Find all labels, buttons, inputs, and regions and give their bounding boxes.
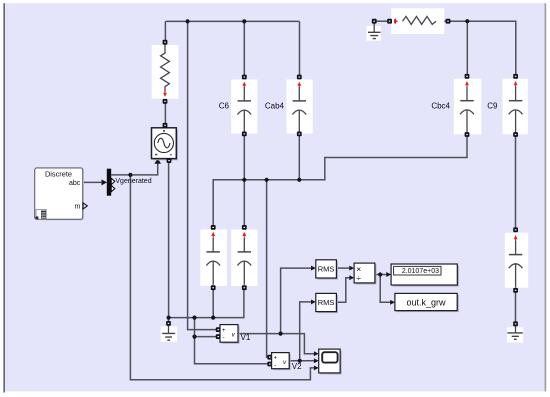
wire V1 output to scope input 1: [239, 334, 315, 354]
wire cap m3 bottom to ground G3: [515, 291, 517, 323]
svg-text:C9: C9: [487, 101, 498, 110]
wire V2 output up to RMS2 input: [300, 302, 312, 361]
junction dot lower bus x194: [192, 316, 196, 320]
wire mux output Vgenerated to source input: [111, 163, 157, 175]
junction dot middle bus to V2: [265, 178, 269, 182]
junction dot lower bus at cap m1: [211, 316, 215, 320]
arrowhead into scope input 1: [314, 351, 319, 356]
arrowhead into scope input 2: [314, 358, 319, 363]
wire Discrete abc to mux: [83, 181, 103, 183]
wire branch to V1 minus input: [195, 336, 217, 338]
junction dot middle bus at Cab4: [297, 178, 301, 182]
powergui block Discrete: [35, 168, 88, 221]
ground G2 top right: [366, 19, 381, 41]
wire lower bus node N: [169, 289, 244, 318]
resistor R1 vertical: [152, 40, 179, 104]
svg-text:V2: V2: [292, 362, 302, 371]
wire RMS2 output to product input 2: [337, 278, 351, 303]
svg-text:RMS: RMS: [318, 265, 335, 274]
canvas right border: [545, 3, 547, 391]
junction dot top bus x188: [186, 19, 190, 23]
capacitor Cab4: [287, 75, 313, 137]
junction dot V2 output: [298, 359, 302, 363]
junction dot V1 output: [279, 332, 283, 336]
wire product output to display input: [375, 274, 386, 276]
arrowhead into display: [386, 272, 391, 277]
RMS block 2: [316, 293, 338, 313]
svg-text:2.0107e+03: 2.0107e+03: [402, 268, 439, 275]
capacitor m2 unlabeled: [231, 225, 257, 290]
svg-text:abc: abc: [69, 180, 81, 187]
wire C9 bottom down to cap m3 top: [515, 136, 517, 228]
arrowhead into mux: [102, 179, 108, 185]
svg-text:Cab4: Cab4: [265, 101, 285, 110]
wire node A down to V1 plus input: [188, 21, 217, 329]
wire C6 bottom to middle bus to cap m2 top: [243, 135, 245, 227]
wire middle bus node B: [213, 136, 467, 227]
wire RMS1 output to product input 1: [337, 267, 351, 269]
resistor R2 horizontal: [387, 8, 450, 34]
svg-text:V1: V1: [241, 333, 251, 342]
mux bus creator: [107, 169, 115, 196]
ground G1 lower left: [161, 321, 177, 342]
wire V2 output to scope input 2: [290, 360, 314, 362]
junction dot middle bus at C6 column: [242, 178, 246, 182]
wire ground G2 to R2 left: [376, 20, 388, 22]
capacitor Cbc4: [454, 74, 482, 137]
arrowhead into source input: [154, 158, 161, 164]
junction dot right bus at Cbc4: [465, 19, 469, 23]
AC controlled voltage source: [152, 123, 179, 163]
wire bus to C6 top: [243, 21, 245, 75]
junction dot lower bus at source minus: [167, 316, 171, 320]
wire R2 right to C9 top: [450, 21, 516, 75]
svg-text:C6: C6: [219, 101, 230, 110]
junction dot Vgenerated: [128, 173, 132, 177]
arrowhead into product input 1: [349, 266, 354, 271]
wire R1 top to bus: [164, 21, 166, 41]
svg-text:÷: ÷: [356, 273, 361, 283]
wire bus to Cab4 top: [299, 21, 301, 75]
svg-text:RMS: RMS: [318, 298, 335, 307]
wire junction down to Cbc4 top: [466, 21, 468, 75]
arrowhead into RMS1: [311, 266, 316, 271]
wire V1 output up to RMS1 input: [281, 268, 312, 334]
capacitor m3 unlabeled right column: [505, 227, 528, 292]
voltage measurement V2: [267, 353, 290, 371]
capacitor m1 unlabeled: [200, 225, 227, 290]
capacitor C6: [231, 75, 257, 137]
svg-text:Discrete: Discrete: [45, 169, 72, 178]
wire product output branch to out block: [380, 275, 390, 303]
junction dot V1 minus branch: [192, 335, 196, 339]
wire middle bus to V2 plus input: [267, 180, 271, 357]
wire R2 left port lead-in: [391, 20, 403, 22]
out block out.k_grw: [395, 293, 459, 312]
RMS block 1: [316, 260, 338, 280]
wire R1 bottom to source V+: [164, 102, 166, 125]
voltage measurement V1: [216, 325, 240, 344]
arrowhead into scope input 3: [314, 365, 319, 370]
svg-text:Vgenerated: Vgenerated: [115, 178, 151, 185]
svg-text:+: +: [274, 355, 278, 361]
scope block: [319, 349, 342, 374]
arrowhead into out block: [390, 300, 395, 305]
junction dot product output: [378, 272, 382, 276]
svg-text:m: m: [74, 204, 80, 211]
product divide block: [354, 263, 376, 284]
display block 2.0107e+03: [391, 264, 459, 287]
wire Vgenerated down along bottom to scope input 3: [130, 175, 314, 380]
wire cap m1 bottom to lower bus: [212, 289, 214, 318]
wire Cab4 bottom to middle bus: [298, 135, 300, 180]
arrowhead into product input 2: [349, 275, 354, 280]
arrowhead into RMS2: [311, 299, 316, 304]
wire source minus down to lower bus: [168, 162, 170, 318]
svg-text:-: -: [274, 362, 276, 369]
svg-text:+: +: [222, 328, 226, 334]
ground G3 lower right: [507, 321, 523, 342]
wire lower bus to ground G1: [168, 318, 170, 322]
svg-text:Cbc4: Cbc4: [431, 101, 450, 110]
wire top bus node A: [165, 20, 299, 22]
svg-text:-: -: [223, 334, 225, 341]
svg-text:out.k_grw: out.k_grw: [406, 297, 446, 307]
wire R2 internal right lead: [436, 20, 446, 22]
capacitor C9: [503, 74, 528, 137]
canvas left border: [3, 3, 5, 392]
junction dot top bus at C6: [242, 19, 246, 23]
wire node N down to V1 minus and V2 minus: [195, 318, 271, 364]
